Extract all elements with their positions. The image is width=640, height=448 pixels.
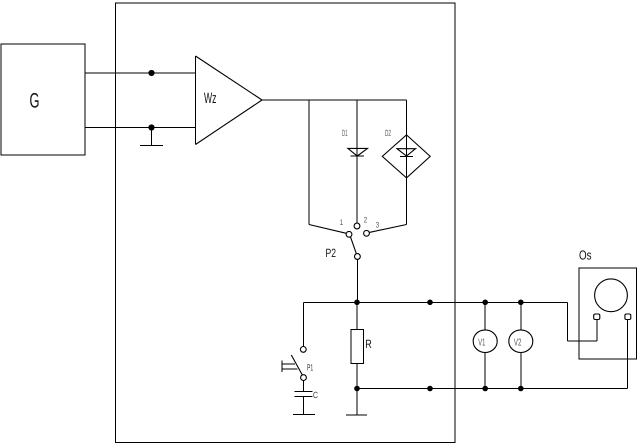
- generator G box: [1, 44, 85, 155]
- wire amp output: [262, 99, 407, 101]
- svg-text:1: 1: [340, 218, 344, 227]
- capacitor C plate 2: [295, 396, 313, 398]
- op-amp left edge: [195, 56, 197, 145]
- switch P2 contact 2 circle: [354, 223, 360, 229]
- ground bar (amp input): [140, 144, 163, 146]
- svg-text:G: G: [30, 90, 40, 113]
- wire top rail to Os: vertical: [567, 303, 569, 341]
- wire top rail to Os: horizontal: [568, 340, 598, 342]
- svg-text:V1: V1: [478, 337, 485, 348]
- node bottom rail V2: [518, 386, 524, 392]
- ground stem (amp input): [151, 128, 153, 146]
- diode D2 triangle: [397, 149, 416, 156]
- switch P2 throw from contact 1: [309, 225, 346, 234]
- wire Os left terminal stem: [596, 320, 598, 341]
- resistor R body: [351, 330, 363, 364]
- voltmeter V1 top stem: [484, 303, 486, 330]
- wire top input: [85, 72, 196, 74]
- node top rail V1: [482, 300, 488, 306]
- voltmeter V1 bottom stem: [484, 353, 486, 389]
- svg-text:2: 2: [364, 216, 368, 225]
- voltmeter V2 top stem: [520, 303, 522, 330]
- wire right branch vertical: [406, 100, 408, 225]
- capacitor C bottom lead: [303, 397, 305, 415]
- wire rail to resistor: [356, 303, 358, 330]
- node top rail mid: [427, 300, 433, 306]
- switch P1 actuator bar: [281, 361, 283, 372]
- node bottom rail at R: [354, 386, 360, 392]
- svg-text:C: C: [313, 390, 318, 400]
- svg-text:V2: V2: [514, 337, 522, 348]
- svg-text:P2: P2: [326, 246, 337, 260]
- switch P2 contact 3 circle: [364, 230, 370, 236]
- oscilloscope Os box: [579, 268, 636, 359]
- node bottom input: [148, 124, 154, 130]
- switch P2 contact 1 circle: [346, 231, 352, 237]
- node bottom rail V1: [482, 386, 488, 392]
- wire bottom rail to Os right terminal: [627, 320, 629, 389]
- op-amp U Wz hypotenuse top: [196, 56, 263, 100]
- diode D2 cathode bar: [400, 155, 413, 157]
- switch P1 arm: [291, 355, 302, 375]
- wire middle branch vertical: [356, 100, 358, 223]
- bottom rail wire: [357, 388, 628, 390]
- capacitor C plate 1: [295, 391, 313, 393]
- switch P1 lower circle: [301, 375, 307, 381]
- svg-text:D2: D2: [385, 128, 391, 138]
- switch P1 actuator line 1: [282, 363, 295, 365]
- node top rail at switch: [354, 300, 360, 306]
- svg-text:3: 3: [376, 221, 380, 230]
- oscilloscope Os terminal left: [594, 314, 600, 320]
- oscilloscope Os terminal right: [625, 314, 631, 320]
- ground bar (below C): [293, 413, 315, 415]
- svg-text:R: R: [365, 337, 372, 351]
- svg-text:D1: D1: [342, 128, 348, 138]
- voltmeter V2 bottom stem: [520, 353, 522, 389]
- wire bottom input: [85, 127, 196, 129]
- node top rail V2: [518, 300, 524, 306]
- voltmeter V1 body: [473, 330, 497, 353]
- op-amp U Wz hypotenuse bottom: [196, 100, 263, 145]
- wire bottom rail to ground: [356, 389, 358, 415]
- switch P2 throw from contact 3: [369, 225, 406, 233]
- capacitor C top lead: [303, 381, 305, 392]
- voltmeter V2 body: [509, 330, 533, 353]
- switch P2 arm: [351, 237, 357, 254]
- top rail wire: [304, 302, 568, 304]
- svg-text:Wz: Wz: [204, 90, 217, 107]
- node top input: [148, 70, 154, 76]
- wire left branch vertical: [308, 100, 310, 225]
- oscilloscope Os screen: [595, 279, 628, 312]
- diode D1 triangle: [348, 148, 368, 156]
- wire resistor to bottom rail: [356, 363, 358, 388]
- ground bar (below R): [346, 414, 367, 416]
- diode D2 diamond: [382, 135, 430, 178]
- wire P1 branch drop: [303, 303, 305, 347]
- switch P1 upper circle: [300, 347, 306, 353]
- wire pole to rail: [356, 259, 358, 302]
- switch P1 actuator line 2: [282, 368, 298, 370]
- svg-text:Os: Os: [579, 247, 592, 262]
- diode D1 cathode bar: [351, 155, 364, 157]
- svg-text:P1: P1: [307, 363, 313, 373]
- node bottom rail mid: [427, 386, 433, 392]
- switch P2 pole circle: [355, 254, 361, 260]
